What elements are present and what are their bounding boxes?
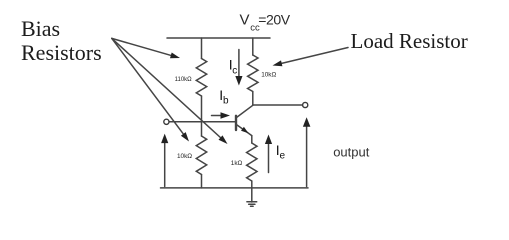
svg-text:=20V: =20V [258,12,291,28]
svg-text:c: c [232,66,237,77]
svg-text:e: e [280,151,286,162]
svg-text:10kΩ: 10kΩ [177,153,192,160]
svg-text:Load Resistor: Load Resistor [351,29,468,53]
svg-text:Bias: Bias [21,16,60,41]
svg-text:1kΩ: 1kΩ [231,160,243,167]
svg-text:output: output [333,145,370,160]
svg-text:V: V [240,12,250,29]
svg-text:Resistors: Resistors [21,40,102,65]
svg-text:b: b [223,96,229,107]
svg-text:10kΩ: 10kΩ [261,72,276,79]
svg-text:110kΩ: 110kΩ [175,77,193,83]
